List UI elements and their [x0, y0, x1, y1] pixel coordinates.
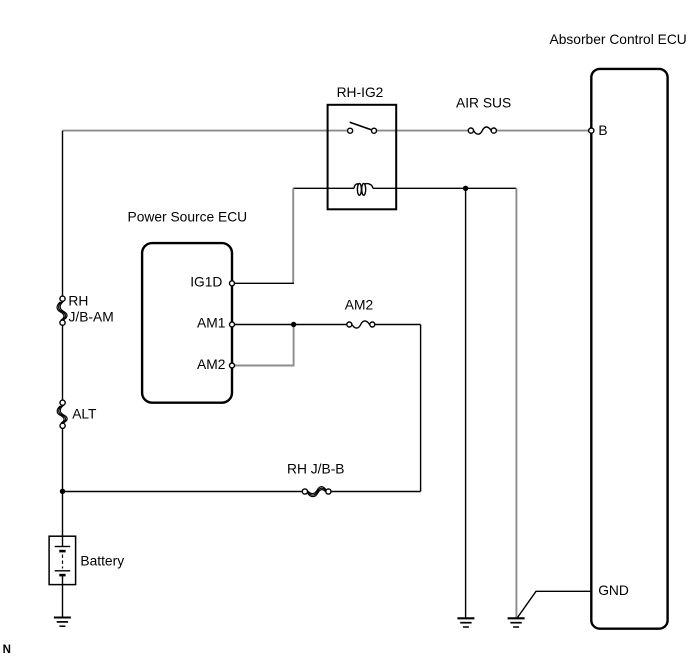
svg-text:N: N [3, 644, 11, 656]
svg-text:RH-IG2: RH-IG2 [337, 85, 384, 100]
fuse AM2 [347, 321, 375, 328]
wire: top B+ line (gray) from left vertical to B pin [63, 130, 589, 132]
svg-text:AIR SUS: AIR SUS [456, 95, 511, 110]
svg-text:Absorber Control ECU: Absorber Control ECU [550, 32, 687, 47]
wire: middle vertical to ground (black) [465, 188, 467, 618]
wire: battery bottom lead to ground (black) [62, 575, 64, 617]
pin IG1D [190, 275, 234, 290]
wire: coil line y=188 (black) [293, 187, 516, 189]
wire: IG1D riser (gray) [292, 188, 294, 283]
fusible link ALT [57, 400, 67, 428]
svg-text:J/B-AM: J/B-AM [69, 310, 114, 325]
fuse AIR SUS [468, 127, 496, 134]
wire: right vertical from AM2 fuse down (black) [420, 325, 422, 492]
svg-text:ALT: ALT [72, 406, 97, 421]
wire: AM2 pin branch (gray) [234, 325, 293, 366]
svg-text:GND: GND [598, 583, 629, 598]
relay coil in RH-IG2 [354, 183, 373, 195]
pin AM1 [197, 316, 235, 331]
svg-text:B: B [598, 123, 607, 138]
junction dot coil line [463, 186, 468, 191]
wire: bottom RH J/B-B line (black) [63, 491, 421, 493]
svg-text:RH: RH [68, 294, 88, 309]
svg-text:Battery: Battery [80, 553, 124, 568]
junction dot AM1/AM2 [291, 322, 296, 327]
battery B1 [49, 536, 76, 584]
svg-text:IG1D: IG1D [190, 275, 222, 290]
pin B [589, 123, 608, 138]
pin AM2 [197, 357, 235, 372]
ground: middle (coil line) [457, 618, 474, 627]
svg-text:AM2: AM2 [345, 297, 373, 312]
fusible link RH J/B-AM [57, 296, 67, 325]
svg-text:RH J/B-B: RH J/B-B [287, 462, 345, 477]
junction dot battery node [60, 489, 65, 494]
ECU box Power Source ECU [142, 243, 232, 403]
svg-text:AM1: AM1 [197, 316, 225, 331]
ground: ECU GND [508, 618, 525, 627]
wire: left vertical battery feed (black) [62, 131, 64, 537]
fusible link RH J/B-B [302, 487, 331, 497]
svg-text:Power Source ECU: Power Source ECU [128, 209, 248, 224]
wire: battery top lead inside box (black) [62, 536, 64, 546]
switch contacts in RH-IG2 [348, 122, 377, 133]
svg-text:AM2: AM2 [197, 357, 225, 372]
wire: right vertical to ground (gray) [515, 188, 517, 618]
wire: AM1 line to AM2 fuse (black) [234, 324, 420, 326]
wire: GND lead with diagonal (black) [517, 591, 591, 618]
ground: battery [54, 618, 71, 627]
relay box RH-IG2 [328, 105, 397, 210]
wire: IG1D pin lead (black) [234, 282, 294, 284]
ECU box Absorber Control ECU [591, 69, 667, 629]
